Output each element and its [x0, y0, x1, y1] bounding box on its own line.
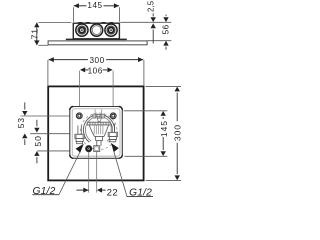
- svg-text:145: 145: [87, 1, 102, 10]
- svg-text:145: 145: [159, 120, 169, 137]
- svg-text:53: 53: [16, 117, 26, 128]
- svg-text:71: 71: [30, 28, 40, 39]
- svg-text:106: 106: [88, 67, 103, 76]
- svg-text:G1/2: G1/2: [33, 186, 56, 197]
- svg-text:2,5: 2,5: [146, 0, 155, 12]
- svg-text:56: 56: [162, 24, 171, 34]
- svg-text:300: 300: [90, 56, 105, 65]
- svg-text:300: 300: [172, 124, 182, 141]
- svg-text:50: 50: [33, 135, 43, 146]
- svg-text:22: 22: [107, 187, 119, 198]
